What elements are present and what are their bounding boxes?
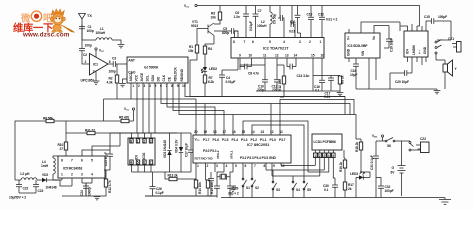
svg-text:4: 4	[328, 154, 330, 158]
capacitor C14 3.3n	[290, 64, 309, 78]
svg-text:5: 5	[137, 161, 139, 165]
svg-text:GJ 5000K: GJ 5000K	[144, 66, 159, 70]
capacitor C15 100uF	[424, 15, 451, 24]
svg-text:R9 1k: R9 1k	[341, 75, 345, 84]
wire bus 6	[185, 83, 345, 115]
svg-text:10: 10	[281, 164, 285, 168]
capacitor C18 10uF	[350, 58, 359, 89]
capacitor C26 0.1uF	[150, 172, 164, 196]
Vcc terminal (top)	[184, 4, 197, 9]
svg-text:XTAL1: XTAL1	[230, 150, 234, 159]
ground (audio)	[434, 89, 441, 94]
svg-text:P3.2 P3.3 P3.4 P3.5 GND: P3.2 P3.3 P3.4 P3.5 GND	[240, 156, 277, 160]
switch S2	[251, 178, 259, 197]
resistor R14 10k	[194, 180, 202, 196]
svg-text:10μ/50V × 2: 10μ/50V × 2	[9, 196, 26, 200]
pin stubs bottom (IC7)	[196, 163, 281, 180]
svg-text:P1.7: P1.7	[203, 138, 210, 142]
svg-text:4: 4	[91, 173, 93, 177]
svg-text:1.3n: 1.3n	[234, 15, 240, 19]
svg-text:7: 7	[150, 161, 152, 165]
power jack CZ2	[409, 137, 429, 153]
LCD1 PCF8566	[312, 134, 342, 150]
zener VD4 3.3V	[175, 133, 184, 172]
capacitor C5 820p	[214, 27, 238, 38]
Vcc terminal (IC1)	[95, 48, 105, 57]
svg-text:C23: C23	[38, 189, 44, 193]
svg-text:2: 2	[71, 173, 73, 177]
svg-text:C27 10μF: C27 10μF	[185, 143, 189, 157]
wire bus straight drops	[137, 83, 155, 133]
svg-text:C25 10μF: C25 10μF	[104, 152, 108, 166]
svg-text:7: 7	[254, 164, 256, 168]
speaker Y	[436, 54, 458, 89]
svg-text:UPC1651: UPC1651	[81, 79, 95, 83]
capacitor C12 220	[272, 80, 281, 92]
svg-text:P1.4: P1.4	[232, 138, 239, 142]
resistor R7 6.2k	[203, 75, 214, 97]
svg-text:10: 10	[249, 54, 253, 58]
capacitor C24 1000p	[80, 183, 92, 196]
svg-text:3: 3	[150, 139, 152, 143]
resistor R1 10k	[188, 45, 199, 60]
resistor R18 2k	[355, 139, 370, 177]
svg-text:10k: 10k	[188, 49, 193, 53]
inductor L4 1mH	[41, 156, 58, 180]
resistor R4	[203, 44, 214, 64]
svg-text:1000p: 1000p	[88, 187, 92, 196]
resistor R2 4.3k	[107, 64, 119, 99]
svg-text:2: 2	[138, 84, 140, 88]
svg-text:0.1: 0.1	[315, 89, 320, 93]
svg-text:10k: 10k	[211, 16, 216, 20]
ground (GJ chip left)	[119, 79, 127, 87]
ground (L1)	[118, 45, 125, 48]
resistor R9 1k	[338, 75, 344, 91]
switch S5	[303, 181, 311, 197]
pin stubs top (IC2)	[235, 6, 323, 38]
svg-text:IC5 MC34063: IC5 MC34063	[63, 167, 83, 171]
svg-text:6: 6	[245, 164, 247, 168]
capacitor C25 10uF	[104, 150, 113, 170]
IC4 LM386	[404, 31, 428, 57]
svg-text:www.dzsc.com: www.dzsc.com	[22, 32, 70, 39]
wire Vcc rail	[197, 6, 419, 27]
wire bus 2	[161, 83, 350, 135]
svg-text:16: 16	[321, 54, 325, 58]
svg-text:XTAL2: XTAL2	[216, 150, 220, 159]
svg-text:IC3 SD2LVBP: IC3 SD2LVBP	[348, 44, 369, 48]
wire LED3 right	[366, 176, 370, 178]
capacitor C22	[16, 180, 29, 193]
svg-text:R15 10k: R15 10k	[210, 182, 214, 194]
pin numbers bottom (IC7)	[197, 164, 285, 168]
svg-text:P3.0 P3.1: P3.0 P3.1	[203, 149, 217, 153]
wire bus 5 (to LCD area)	[179, 83, 361, 139]
svg-text:LCD1 PCF8566: LCD1 PCF8566	[314, 140, 337, 144]
capacitor C30 0.1	[323, 178, 338, 198]
wire bottom mid	[145, 195, 217, 197]
svg-text:12: 12	[275, 54, 279, 58]
svg-text:Vo: Vo	[372, 36, 376, 40]
svg-text:0.1: 0.1	[324, 188, 329, 192]
svg-text:RST RXD TXD: RST RXD TXD	[195, 157, 213, 161]
svg-text:11: 11	[280, 130, 284, 134]
wire bus 7	[280, 100, 354, 136]
svg-text:C2: C2	[83, 53, 87, 57]
wire to R11	[66, 121, 87, 133]
wire cluster bottom	[132, 171, 192, 173]
svg-text:220p: 220p	[257, 88, 264, 92]
resistor R12b 4.7k	[97, 170, 112, 196]
svg-text:220: 220	[272, 88, 277, 92]
inductor L1	[96, 27, 122, 44]
svg-text:C8 4.7n: C8 4.7n	[248, 72, 259, 76]
svg-text:2: 2	[143, 139, 145, 143]
capacitor C4 0.047	[219, 38, 238, 97]
svg-text:C24: C24	[80, 190, 84, 196]
svg-text:3: 3	[93, 70, 95, 74]
svg-text:V+: V+	[347, 36, 351, 40]
watermark mascot	[50, 9, 74, 33]
svg-text:P1.2: P1.2	[251, 138, 258, 142]
capacitor C11 0.01	[289, 6, 296, 38]
svg-text:5: 5	[235, 164, 237, 168]
svg-text:IC7 89C2051: IC7 89C2051	[247, 143, 269, 147]
svg-text:12: 12	[270, 130, 274, 134]
svg-text:3: 3	[81, 173, 83, 177]
wires IC5 bottom	[53, 178, 92, 196]
svg-text:6: 6	[81, 159, 83, 163]
svg-text:R12 100: R12 100	[278, 79, 282, 91]
svg-text:GND: GND	[347, 48, 351, 56]
svg-text:3: 3	[144, 84, 146, 88]
svg-text:8: 8	[264, 164, 266, 168]
svg-text:C7: C7	[258, 9, 262, 13]
svg-text:VD4 3.3V: VD4 3.3V	[175, 139, 179, 153]
transistor VT1 9013	[191, 20, 214, 45]
svg-text:20: 20	[194, 130, 198, 134]
svg-text:13: 13	[261, 130, 265, 134]
wire node to L1	[82, 39, 96, 41]
svg-text:8: 8	[233, 40, 235, 44]
LED2	[201, 64, 217, 75]
watermark circle logo	[31, 11, 41, 21]
switch S6	[383, 138, 411, 149]
capacitor C31 0.1uF	[370, 141, 379, 198]
resistor R3 10k	[211, 6, 222, 25]
wires IC4 bottom	[408, 57, 427, 73]
switch S4	[292, 176, 300, 198]
wires IC3 top	[349, 22, 400, 39]
svg-text:14: 14	[251, 130, 255, 134]
svg-text:LED2: LED2	[209, 67, 217, 71]
svg-text:1N4148: 1N4148	[46, 186, 57, 190]
svg-text:IC6: IC6	[135, 155, 139, 160]
svg-text:C9 50p: C9 50p	[273, 14, 277, 24]
svg-text:100μF: 100μF	[438, 15, 447, 19]
svg-text:11: 11	[263, 54, 267, 58]
svg-text:P1.1: P1.1	[260, 138, 267, 142]
wire IC6 rail	[110, 133, 191, 150]
svg-text:100μF: 100μF	[385, 189, 394, 193]
svg-text:R18 2k: R18 2k	[355, 142, 359, 152]
svg-text:P1.6: P1.6	[213, 138, 220, 142]
ground (IC2 cluster)	[337, 91, 344, 96]
svg-text:S3: S3	[276, 188, 280, 192]
svg-text:C3: C3	[112, 57, 116, 61]
svg-text:P1.3: P1.3	[241, 138, 248, 142]
svg-text:27: 27	[60, 147, 64, 151]
IC7 89C2051	[193, 135, 291, 163]
resistor R11 27	[85, 129, 177, 135]
svg-text:5: 5	[332, 154, 334, 158]
svg-text:1: 1	[320, 40, 322, 44]
svg-text:1: 1	[132, 84, 134, 88]
svg-text:C12: C12	[318, 13, 324, 17]
svg-text:VIN: VIN	[361, 50, 365, 56]
wires IC7 right loop	[243, 121, 329, 182]
svg-text:C31 0.1μF: C31 0.1μF	[370, 155, 374, 170]
ground (bottom bus left end)	[230, 186, 237, 191]
resistor R12 100	[277, 65, 286, 97]
svg-text:17: 17	[223, 130, 227, 134]
svg-text:4: 4	[226, 164, 228, 168]
resistor R17 2k	[343, 182, 354, 198]
svg-text:1mH: 1mH	[41, 164, 49, 168]
svg-text:R16 2k: R16 2k	[339, 162, 343, 172]
svg-text:ANT: ANT	[128, 59, 135, 63]
pin boxes (LCD1)	[314, 150, 336, 158]
crystal G1	[217, 172, 233, 186]
capacitor C29 33p x2	[214, 186, 239, 198]
capacitor C10 220p	[257, 80, 268, 92]
svg-text:0.01μF: 0.01μF	[249, 21, 253, 31]
LED3	[350, 172, 366, 198]
svg-text:LM386: LM386	[412, 45, 416, 55]
battery G 6V	[391, 141, 406, 196]
svg-text:R12 4.7k: R12 4.7k	[108, 180, 112, 193]
inductor L3 1.2uH	[15, 172, 42, 180]
svg-text:6: 6	[252, 40, 254, 44]
svg-text:AVCE: AVCE	[140, 72, 144, 81]
svg-text:1.2 μH: 1.2 μH	[20, 172, 30, 176]
svg-text:VD2: VD2	[42, 173, 48, 177]
capacitor C28	[208, 172, 214, 196]
antenna TX	[79, 14, 93, 41]
svg-text:9013: 9013	[191, 24, 198, 28]
svg-text:C19 10μF: C19 10μF	[390, 38, 394, 52]
svg-text:2: 2	[309, 40, 311, 44]
svg-text:S6: S6	[387, 144, 391, 148]
capacitor C1	[79, 24, 94, 40]
svg-text:C20 10μF: C20 10μF	[395, 80, 409, 84]
svg-text:AGC2: AGC2	[129, 72, 133, 81]
svg-text:S2: S2	[255, 186, 259, 190]
svg-text:100p: 100p	[109, 70, 116, 74]
resistor R5 470	[104, 116, 134, 123]
op-amp IC1	[85, 54, 111, 76]
resistor R13 2k	[165, 172, 196, 181]
capacitor C12 0.01x2	[318, 13, 337, 22]
wires LCD pins down	[333, 158, 335, 178]
svg-text:9: 9	[239, 54, 241, 58]
svg-text:100uH: 100uH	[96, 31, 106, 35]
svg-text:LED3: LED3	[350, 172, 358, 176]
wires IC5 top	[82, 133, 120, 156]
ground (IC1)	[93, 71, 100, 84]
svg-text:GND: GND	[423, 46, 427, 54]
svg-text:4: 4	[283, 40, 285, 44]
resistor R8 56k	[43, 117, 54, 123]
svg-text:+ −: + −	[418, 49, 422, 54]
resistor R10 27	[58, 133, 68, 156]
ground (IC5)	[62, 196, 100, 200]
svg-text:19: 19	[204, 130, 208, 134]
capacitor C3	[108, 57, 127, 74]
svg-text:100uH: 100uH	[257, 24, 267, 28]
IC GJ 5000K	[127, 57, 188, 83]
capacitor C2	[79, 40, 92, 64]
switch S1	[242, 178, 250, 197]
capacitor C10	[295, 6, 301, 38]
svg-text:0.01μF: 0.01μF	[226, 80, 236, 84]
svg-text:0.01: 0.01	[324, 95, 330, 99]
capacitor C8 4.7n	[245, 64, 259, 76]
pin numbers top (IC7)	[194, 130, 283, 134]
svg-text:P3.7: P3.7	[279, 138, 286, 142]
capacitor C23	[19, 180, 44, 193]
svg-text:9: 9	[177, 84, 179, 88]
svg-text:820p: 820p	[222, 31, 229, 35]
svg-text:CLK: CLK	[162, 74, 166, 81]
svg-text:15: 15	[311, 54, 315, 58]
IC3 SD2LVBP	[345, 33, 380, 58]
svg-text:P1.5: P1.5	[222, 138, 229, 142]
svg-text:4.3k: 4.3k	[107, 81, 113, 85]
capacitor C7 0.01uF	[249, 6, 262, 38]
Vcc terminal (mid)	[124, 107, 135, 121]
svg-text:S5: S5	[307, 188, 311, 192]
wire gnd bus left	[190, 60, 345, 97]
svg-text:P1.0: P1.0	[270, 138, 277, 142]
svg-text:3: 3	[323, 154, 325, 158]
wire bottom bus	[145, 196, 445, 198]
capacitor C20 10uF	[390, 70, 412, 89]
svg-text:CZ2: CZ2	[420, 137, 426, 141]
IC5 MC34063	[58, 156, 105, 178]
svg-text:R4: R4	[208, 47, 212, 51]
resistor R16 2k	[339, 150, 347, 182]
svg-text:2: 2	[319, 154, 321, 158]
svg-text:16: 16	[232, 130, 236, 134]
svg-text:RD/GND: RD/GND	[180, 68, 184, 81]
svg-text:RD/LOCK: RD/LOCK	[174, 66, 178, 81]
svg-text:IC2 TDA7021T: IC2 TDA7021T	[263, 47, 289, 51]
wire cluster to bus	[240, 65, 284, 97]
IC6 24C02	[128, 133, 155, 172]
wire bus 1	[104, 83, 197, 135]
svg-text:8: 8	[130, 139, 132, 143]
pin labels (GJ 5000K)	[129, 66, 184, 81]
svg-text:14: 14	[294, 54, 298, 58]
svg-text:3: 3	[216, 164, 218, 168]
capacitor C27 10uF	[185, 133, 195, 172]
capacitor C9 50p	[273, 6, 285, 38]
svg-text:IC1: IC1	[93, 63, 98, 67]
svg-text:3: 3	[299, 40, 301, 44]
IC2 TDA7021T	[231, 38, 324, 59]
svg-text:5: 5	[91, 159, 93, 163]
svg-text:7: 7	[244, 40, 246, 44]
svg-text:100p: 100p	[87, 29, 94, 33]
svg-text:0.01 × 2: 0.01 × 2	[326, 18, 337, 22]
svg-text:SCL: SCL	[146, 75, 150, 81]
svg-text:1: 1	[137, 139, 139, 143]
svg-text:2k: 2k	[348, 187, 352, 191]
pin stubs bottom (IC2) + parts below	[240, 58, 340, 91]
svg-text:8: 8	[61, 159, 63, 163]
VDD terminal	[372, 134, 384, 141]
svg-text:10μF: 10μF	[350, 73, 357, 77]
capacitor C16 0.1	[314, 80, 325, 92]
svg-text:1: 1	[61, 173, 63, 177]
svg-text:S4: S4	[296, 188, 300, 192]
svg-text:S1: S1	[246, 186, 250, 190]
svg-text:100p: 100p	[85, 44, 92, 48]
capacitor C19 10uF	[384, 38, 394, 52]
svg-text:4: 4	[130, 161, 132, 165]
svg-text:VCC: VCC	[135, 74, 139, 81]
svg-text:7: 7	[71, 159, 73, 163]
diode VD2 1N4148	[42, 173, 60, 190]
svg-text:2: 2	[85, 60, 87, 64]
svg-text:0.1μF: 0.1μF	[156, 191, 164, 195]
svg-text:VD3 1N4148: VD3 1N4148	[163, 140, 167, 158]
svg-text:TX: TX	[87, 14, 92, 18]
capacitor C13	[307, 13, 315, 20]
svg-text:C15: C15	[424, 15, 430, 19]
inductor L2 100uH	[257, 6, 272, 38]
capacitor C17 0.01	[324, 78, 334, 99]
svg-text:1: 1	[314, 154, 316, 158]
svg-text:13: 13	[285, 54, 289, 58]
wire bus 4	[173, 83, 224, 135]
svg-text:6: 6	[109, 60, 111, 64]
svg-text:0.01: 0.01	[289, 30, 295, 34]
svg-text:18: 18	[213, 130, 217, 134]
svg-text:IC4: IC4	[406, 49, 410, 54]
svg-text:33p × 2: 33p × 2	[228, 192, 239, 196]
diode VD3 1N4148	[163, 133, 172, 172]
svg-text:6.2k: 6.2k	[208, 80, 214, 84]
svg-text:R14 10k: R14 10k	[198, 182, 202, 194]
switch S3	[272, 170, 280, 198]
capacitor C32 100uF	[376, 177, 394, 197]
svg-text:C14 3.3n: C14 3.3n	[297, 74, 310, 78]
wires IC4 top	[400, 21, 432, 31]
wires IC3 bottom	[349, 58, 376, 89]
wire bus 3	[167, 83, 215, 135]
wire audio rail	[356, 88, 437, 90]
ground (bottom bus right)	[439, 198, 451, 205]
wire frame	[15, 121, 104, 180]
svg-text:C13: C13	[307, 13, 313, 17]
resistor R15 10k	[206, 180, 215, 196]
svg-text:2: 2	[207, 164, 209, 168]
capacitor C6 1.3n	[234, 6, 250, 25]
svg-text:1: 1	[197, 164, 199, 168]
